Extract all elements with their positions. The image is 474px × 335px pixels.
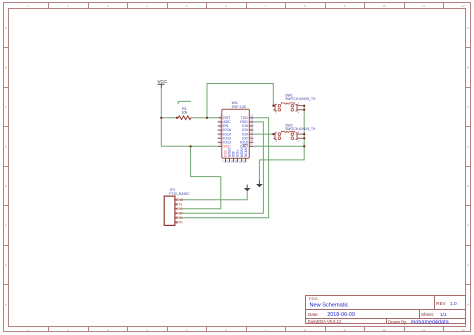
svg-text:10k: 10k	[182, 111, 188, 115]
svg-text:E: E	[467, 184, 469, 188]
svg-text:H: H	[5, 303, 7, 307]
WI1 bottom pin names	[224, 147, 248, 157]
svg-text:TXD: TXD	[176, 212, 183, 216]
svg-text:11: 11	[422, 328, 425, 332]
svg-text:11: 11	[422, 4, 425, 8]
svg-text:mohamed4data: mohamed4data	[411, 319, 449, 325]
svg-text:12: 12	[461, 4, 465, 8]
wire VCC to chip pin VCC	[161, 145, 217, 147]
svg-text:REV: REV	[436, 301, 446, 306]
node SW2 pin1 junction	[272, 133, 274, 135]
wire chip RXD to JP1 TXD	[180, 122, 264, 213]
WI1 left pin numbers	[220, 114, 222, 145]
svg-text:10: 10	[382, 4, 386, 8]
wire VCC junction to R1	[161, 117, 177, 119]
svg-text:2018-06-09: 2018-06-09	[327, 312, 355, 318]
title block	[306, 296, 466, 324]
ground left	[244, 185, 251, 192]
title block text	[308, 297, 457, 325]
WI1 bottom pins 17-22	[226, 158, 246, 162]
node VCC/JP1 junction	[190, 145, 192, 147]
svg-text:10: 10	[382, 328, 386, 332]
wire stub above R1	[178, 101, 191, 104]
svg-text:1/1: 1/1	[440, 312, 447, 318]
svg-text:FTDI_BASIC: FTDI_BASIC	[169, 192, 190, 196]
svg-text:VCC: VCC	[223, 145, 231, 149]
switch SW1	[273, 93, 316, 114]
svg-text:GND: GND	[240, 145, 248, 149]
svg-text:1.0: 1.0	[450, 301, 457, 307]
svg-text:ESP-12E: ESP-12E	[232, 105, 247, 109]
svg-text:DTR: DTR	[176, 221, 183, 225]
svg-text:B: B	[5, 66, 7, 70]
wire chip TXD to JP1 RXD	[180, 118, 269, 218]
svg-text:H: H	[467, 303, 469, 307]
svg-text:VCC: VCC	[176, 207, 183, 211]
node SW1 pin1 junction	[272, 105, 274, 107]
node SW2 right junctions	[303, 133, 305, 135]
svg-text:TITLE:: TITLE:	[309, 297, 319, 301]
node R1 left terminal	[176, 117, 178, 119]
svg-text:GND: GND	[176, 198, 184, 202]
svg-text:New Schematic: New Schematic	[310, 302, 349, 308]
svg-text:SCLK: SCLK	[244, 147, 248, 157]
node VCC/R1 junction	[160, 117, 162, 119]
junction dots	[160, 105, 305, 148]
svg-text:F: F	[467, 224, 469, 228]
wire VCC vertical	[160, 87, 162, 146]
wire chip GND row	[253, 145, 304, 147]
wire RST net up and over to SW1	[207, 84, 273, 118]
VCC flag	[157, 79, 168, 88]
svg-text:E: E	[5, 184, 7, 188]
WI1 right pin names	[240, 116, 248, 149]
svg-text:12: 12	[461, 328, 465, 332]
node RST junction	[206, 117, 208, 119]
wire VCC down to JP1 pin3	[180, 146, 221, 209]
svg-text:CTS: CTS	[176, 203, 182, 207]
svg-text:B: B	[467, 66, 469, 70]
WI1 left pin names	[223, 116, 231, 149]
header JP1 FTDI_BASIC	[164, 188, 190, 225]
node GND row junction	[303, 145, 305, 147]
svg-text:A: A	[5, 26, 7, 30]
wire SW1/SW2 right vertical to ground	[259, 106, 304, 181]
wire R1 to chip RST	[191, 117, 217, 119]
resistor R1	[177, 116, 191, 120]
svg-text:EasyEDA V5.5.12: EasyEDA V5.5.12	[308, 319, 342, 324]
svg-text:Sheet:: Sheet:	[421, 312, 434, 317]
svg-text:A: A	[467, 26, 469, 30]
switch SW2	[273, 123, 316, 143]
ground right	[256, 181, 263, 188]
svg-text:F: F	[5, 224, 7, 228]
svg-text:Date:: Date:	[308, 312, 319, 317]
svg-text:SWITCH-6X6X5_TH: SWITCH-6X6X5_TH	[285, 97, 316, 101]
svg-text:SWITCH-6X6X5_TH: SWITCH-6X6X5_TH	[285, 127, 316, 131]
WI1 left pins 1-8	[218, 118, 222, 147]
IC WI1 ESP-12E body	[222, 101, 250, 158]
wire chip IO0 to SW2	[253, 133, 273, 135]
svg-text:Drawn By:: Drawn By:	[388, 319, 407, 324]
svg-text:RXD: RXD	[176, 216, 183, 220]
WI1 right pins 9-16	[249, 118, 253, 147]
node SW1 right junctions	[303, 105, 305, 107]
wire JP1 GND to ground	[180, 191, 248, 200]
